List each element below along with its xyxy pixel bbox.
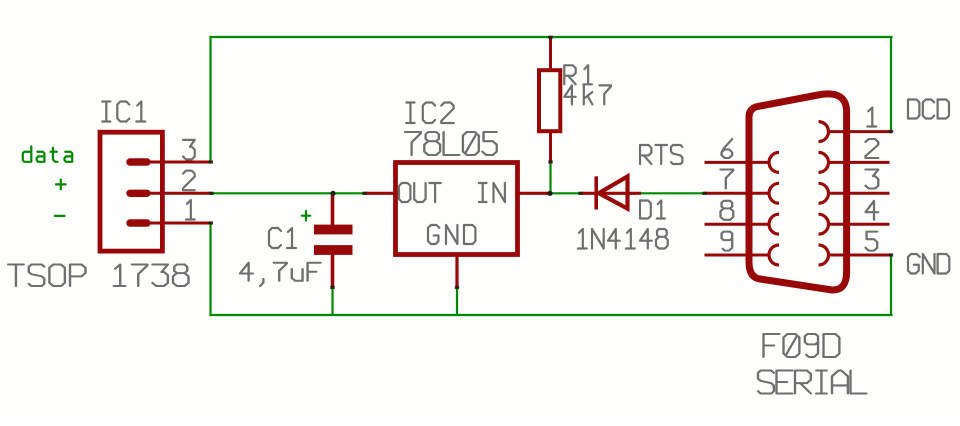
label R1: [564, 65, 592, 84]
DB9 pin number 4: [866, 201, 879, 220]
IC2 78L05 body: [396, 163, 518, 255]
DB9 pin 4 socket arc: [819, 214, 829, 234]
IC2 GND lead: [455, 255, 458, 288]
wire bottom ground rail: [210, 314, 893, 316]
resistor R1 body: [539, 70, 560, 131]
diode D1 anode-cathode lead through symbol: [581, 192, 642, 195]
DB9 pin number 3: [866, 170, 879, 189]
DB9 pin 9 socket arc: [769, 245, 779, 265]
wire colour transition dot: [362, 192, 366, 195]
DB9 pin 1 socket arc: [819, 122, 829, 142]
DB9 pin 3 socket arc: [819, 183, 829, 203]
wire colour transition dot: [548, 36, 552, 39]
label IC2: [406, 103, 453, 124]
IC2 pin label GND: [428, 225, 475, 244]
DB9 pin number 9: [722, 232, 733, 251]
wire colour transition dot: [548, 160, 552, 163]
DB9 pin number 1: [867, 108, 876, 127]
IC1 pin 2 lead: [147, 192, 212, 195]
resistor R1 bottom lead: [549, 131, 552, 162]
IC1 pin 3 pad: [130, 158, 147, 165]
wire colour transition dot: [330, 286, 334, 289]
net label RTS: [640, 145, 682, 164]
capacitor C1 bottom plate: [314, 245, 353, 255]
wire R1 bottom to node: [549, 162, 551, 194]
capacitor C1 top plate: [314, 225, 353, 235]
IC2 pin label OUT: [399, 183, 441, 202]
label 1N4148: [578, 229, 668, 249]
wire colour transition dot: [209, 221, 213, 224]
diode D1 triangle: [599, 176, 628, 208]
DB9 pin number 2: [866, 139, 879, 158]
net label GND: [908, 254, 949, 274]
IC2 IN lead: [518, 192, 551, 195]
wire IC2 GND to ground rail: [456, 287, 458, 316]
wire left vertical to IC1 pin 3: [209, 36, 211, 162]
IC1 pin 3 lead: [147, 161, 212, 164]
wire IC1 pin 2 to C1/IC2 OUT: [211, 192, 365, 194]
IC1 pin number 1: [186, 200, 195, 220]
DB9 pin number 7: [721, 170, 734, 189]
IC1 pin 1 lead: [147, 222, 212, 225]
DB9 pin 6 socket arc: [769, 152, 779, 172]
DB9 pin number 6: [722, 139, 733, 158]
net label DCD: [908, 100, 949, 119]
DB9 pin number 8: [721, 201, 734, 220]
wire colour transition dot: [209, 160, 213, 163]
wire IC2 IN / R1 node to D1 anode-side: [550, 192, 582, 194]
IC1 pin number 2: [183, 171, 195, 191]
label IC1: [102, 102, 145, 122]
label SERIAL: [758, 371, 866, 394]
IC1 pin 2 pad: [130, 190, 147, 197]
C1 polarity plus: [302, 211, 310, 220]
wire colour transition dot: [455, 286, 459, 289]
net label minus: [55, 215, 65, 217]
wire C1 bottom to ground rail: [331, 287, 333, 316]
wire colour transition dot: [889, 130, 893, 133]
wire colour transition dot: [578, 192, 582, 195]
capacitor C1 top lead: [331, 193, 335, 225]
label TSOP 1738: [8, 265, 188, 287]
wire colour transition dot: [889, 253, 893, 256]
IC1 TSOP1738 body: [100, 132, 162, 251]
capacitor C1 bottom lead: [331, 255, 335, 288]
label 4k7: [564, 85, 611, 104]
wire colour transition dot: [702, 192, 706, 195]
DB9 pin 7 lead: [705, 192, 768, 195]
wire top VCC horizontal: [210, 36, 893, 38]
DB9 pin 8 socket arc: [769, 214, 779, 234]
net label data: [23, 146, 72, 162]
diode D1 cathode bar: [594, 176, 598, 209]
DB9 pin 3 lead: [830, 192, 890, 195]
IC2 OUT lead: [365, 192, 396, 195]
DB9 pin 7 socket arc: [769, 183, 779, 203]
DB9 pin number 5: [866, 232, 878, 251]
IC2 pin label IN: [479, 183, 505, 202]
resistor R1 top lead: [549, 36, 552, 70]
junction at C1 / pin2 net: [330, 191, 335, 196]
label 4,7uF: [240, 263, 321, 286]
connector F09D DB9 shell: [749, 94, 847, 290]
wire D1 cathode-side to DB9 pin 7: [641, 192, 705, 194]
wire right vertical to DB9 pin 1: [890, 36, 892, 132]
label C1: [269, 228, 296, 248]
IC1 pin number 3: [183, 140, 195, 160]
DB9 pin 4 lead: [830, 223, 890, 226]
DB9 pin 5 lead: [830, 254, 892, 257]
DB9 pin 6 lead: [705, 161, 768, 164]
label F09D: [764, 334, 840, 357]
label 78L05: [405, 132, 497, 155]
DB9 pin 8 lead: [705, 223, 768, 226]
DB9 pin 9 lead: [705, 254, 768, 257]
wire IC1 pin 1 down to ground rail: [209, 223, 211, 316]
junction at R1 / IN net: [547, 191, 552, 196]
label D1: [640, 201, 665, 219]
DB9 pin 5 socket arc: [819, 245, 829, 265]
DB9 pin 2 socket arc: [819, 152, 829, 172]
net label plus: [56, 180, 66, 190]
IC1 pin 1 pad: [130, 219, 147, 226]
DB9 pin 1 lead: [830, 130, 892, 133]
wire DB9 pin 5 down to ground rail: [890, 255, 892, 316]
DB9 pin 2 lead: [830, 161, 890, 164]
wire colour transition dot: [209, 192, 213, 195]
